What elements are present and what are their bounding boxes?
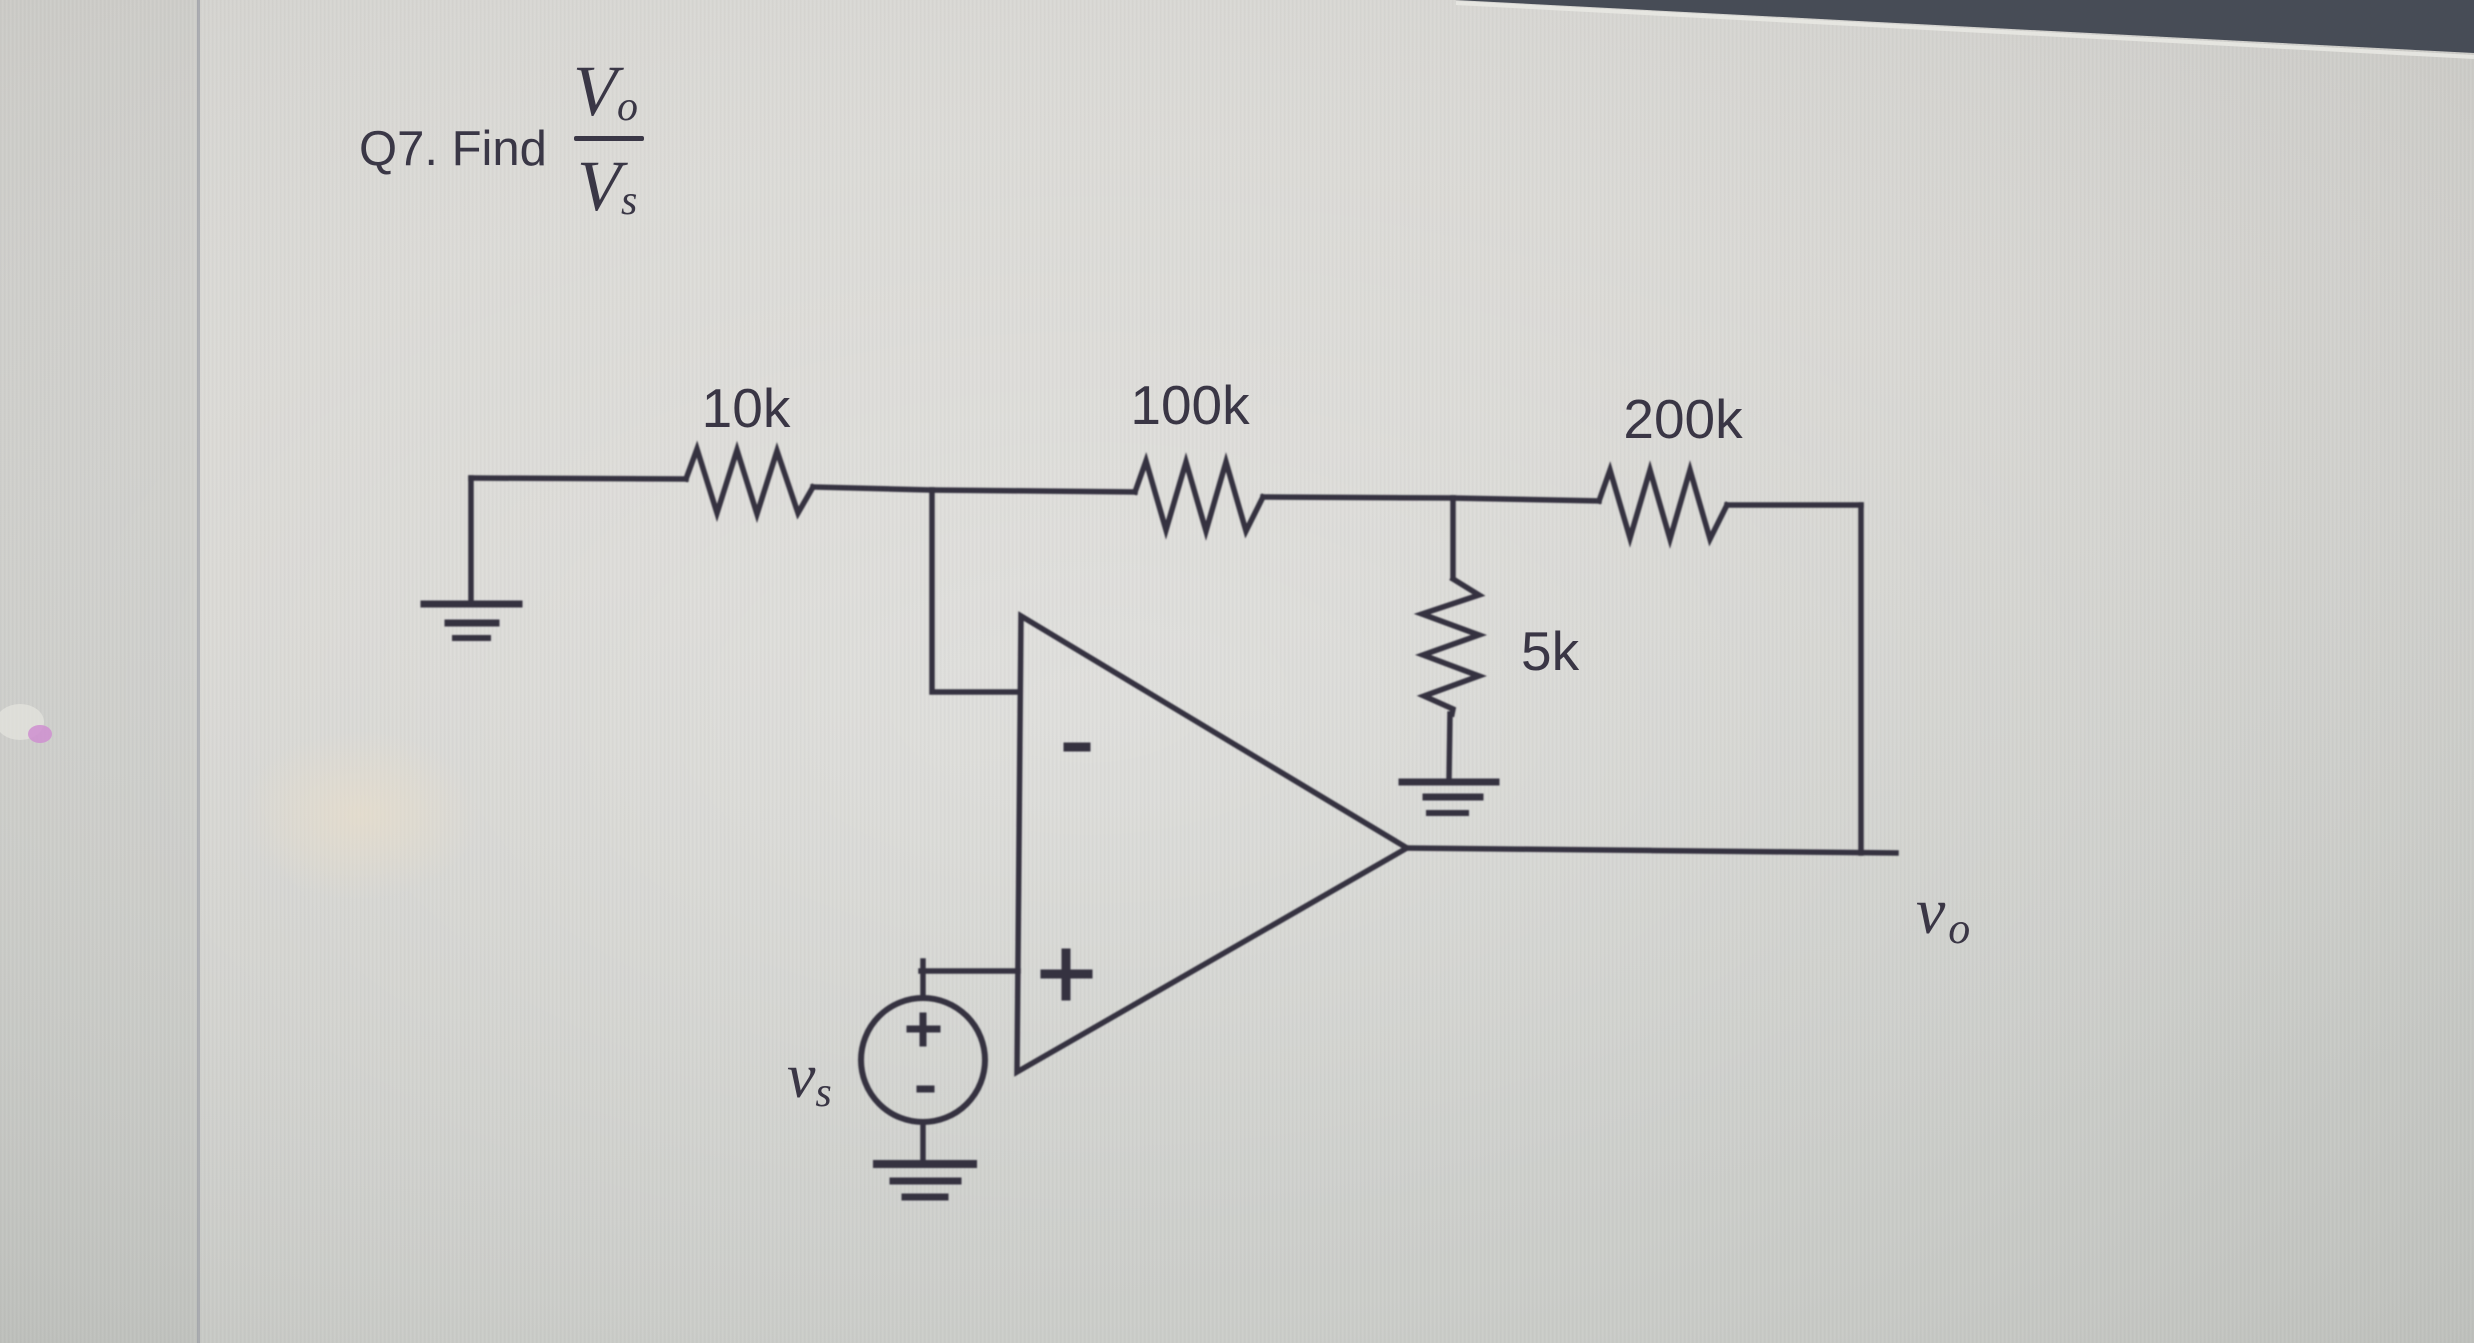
source - polarity mark [920,1086,931,1093]
op-amp U1 triangle [1017,616,1407,1072]
resistor 100k [1135,461,1263,531]
wire: 200k to right corner [1727,502,1861,508]
svg-text:100k: 100k [1130,374,1250,436]
wire: node B down to 5k [1450,498,1456,578]
wire: 100k to node B [1263,497,1453,498]
wire: right vertical drop [1858,505,1864,853]
ground (left, input side) [424,478,519,638]
resistor 5k [1422,579,1479,714]
source VS circle [861,998,985,1122]
svg-text:10k: 10k [702,377,791,439]
svg-text:5k: 5k [1521,620,1580,682]
title [359,51,644,226]
wire: source to ground [920,1122,926,1158]
source + polarity mark [910,1016,937,1043]
fraction bar [574,136,644,141]
ground (under source) [877,1164,973,1197]
node A junction to inverting input [932,490,1019,692]
wire: left ground to 10k [471,478,686,479]
wire: op-amp output [1407,848,1896,853]
wire: 10k to node A [813,487,932,490]
wire: stub above source [920,961,926,998]
wire: non-inverting input [921,968,1018,974]
wire: node B to 200k [1453,498,1599,501]
svg-text:200k: 200k [1623,388,1743,450]
wire: 5k to ground [1449,714,1450,779]
ground (under 5k) [1402,782,1496,813]
op-amp non-inverting pin (+) label [1045,953,1088,996]
op-amp inverting pin (-) label [1068,743,1086,752]
svg-text:Q7. Find: Q7. Find [359,122,547,176]
wire: node A to 100k [932,490,1135,492]
value labels [702,374,1743,682]
resistor 200k [1599,470,1727,539]
resistor 10k [686,449,813,514]
